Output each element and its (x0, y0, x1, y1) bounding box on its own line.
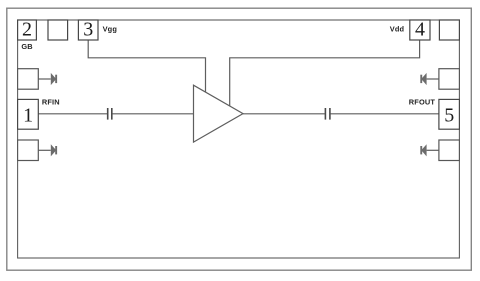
svg-text:1: 1 (23, 105, 33, 127)
pin 5 (439, 99, 460, 129)
svg-text:RFIN: RFIN (42, 97, 60, 106)
svg-text:RFOUT: RFOUT (409, 97, 436, 106)
wire amplifier to C2 (243, 113, 325, 115)
pad with probe arrow lower-left (18, 140, 58, 161)
svg-text:Vdd: Vdd (390, 25, 405, 34)
wire C1 to amplifier (112, 113, 193, 115)
capacitor C2 (325, 108, 330, 120)
pin 2 (18, 19, 37, 41)
svg-text:5: 5 (444, 105, 454, 127)
pad with probe arrow lower-right (420, 140, 459, 161)
chip outline (18, 20, 460, 258)
Vgg bias wire (88, 40, 205, 93)
pin 3 (78, 19, 98, 41)
svg-text:GB: GB (21, 42, 32, 51)
wire pin1 to C1 (38, 113, 107, 115)
capacitor C1 (108, 108, 112, 120)
svg-text:Vgg: Vgg (103, 24, 118, 33)
pad with probe arrow upper-left (18, 69, 58, 90)
svg-text:2: 2 (22, 19, 32, 41)
pin 1 (18, 99, 39, 129)
Vdd bias wire (230, 40, 420, 107)
amplifier U1 (194, 85, 244, 142)
bond pad top-right (439, 20, 459, 40)
svg-text:3: 3 (83, 19, 93, 41)
bond pad top-left (48, 20, 68, 40)
pad with probe arrow upper-right (420, 69, 459, 90)
svg-text:4: 4 (415, 19, 425, 41)
wire C2 to pin5 (331, 113, 440, 115)
pin 4 (410, 19, 430, 41)
